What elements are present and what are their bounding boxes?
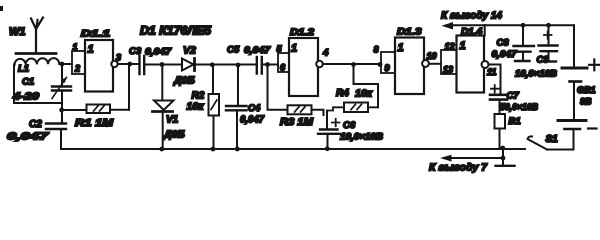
wire switch to battery: [547, 149, 574, 151]
node R1 tap: [59, 108, 64, 113]
node D1.3 in: [378, 62, 383, 67]
svg-text:К выводу 7: К выводу 7: [429, 162, 488, 174]
battery GB1: [562, 67, 587, 70]
battery plus: [589, 60, 600, 71]
svg-text:C1: C1: [22, 77, 34, 88]
wire input to D1.1: [62, 63, 72, 65]
svg-text:D1.3: D1.3: [397, 27, 422, 38]
C9 ground bar: [543, 60, 556, 62]
svg-text:10,0×10В: 10,0×10В: [340, 132, 384, 142]
C8 ground bar: [515, 60, 530, 62]
output bubble D1.2: [316, 61, 323, 68]
node C8: [521, 23, 526, 28]
wire tank bottom: [14, 102, 62, 104]
gate D1.3: [381, 52, 395, 73]
svg-text:V1: V1: [166, 115, 179, 126]
svg-text:0,047: 0,047: [244, 45, 271, 56]
wire D1.1 out: [118, 63, 138, 65]
svg-text:V2: V2: [183, 45, 196, 57]
antenna bar: [16, 52, 56, 55]
svg-text:D1 К176ЛЕ5: D1 К176ЛЕ5: [140, 26, 212, 38]
resistor R3: [288, 105, 312, 114]
arrow to pin 14: [442, 22, 454, 30]
svg-text:12: 12: [445, 42, 455, 52]
node V1 rail: [159, 147, 164, 152]
resistor R1: [62, 109, 87, 111]
svg-text:L1: L1: [18, 64, 29, 75]
node C4 rail: [235, 147, 240, 152]
wire D1.2 out: [323, 63, 381, 65]
svg-text:В1: В1: [509, 116, 521, 127]
node V1 branch: [160, 62, 165, 67]
svg-text:10,0×10В: 10,0×10В: [515, 69, 557, 80]
svg-text:Д9Б: Д9Б: [163, 129, 185, 141]
svg-text:10к: 10к: [187, 101, 205, 113]
resistor R4: [344, 103, 368, 113]
gate D1.4: [441, 50, 457, 74]
wire C2 to rail: [60, 129, 62, 149]
svg-text:3: 3: [116, 53, 121, 63]
capacitor C1: [52, 87, 71, 91]
svg-text:0,047: 0,047: [145, 47, 172, 58]
wire pin7 arrow line: [451, 157, 503, 159]
svg-text:R3 1М: R3 1М: [280, 116, 313, 128]
capacitor C8: [522, 25, 524, 46]
output bubble D1.1: [111, 61, 117, 67]
node R2 branch: [210, 62, 215, 67]
svg-text:К выводу 14: К выводу 14: [441, 10, 502, 22]
wire V1 branch: [161, 65, 163, 101]
wire tank right leg lower: [61, 91, 63, 124]
wire R4 zigzag: [354, 65, 379, 108]
switch S1: [528, 136, 548, 149]
battery minus: [588, 127, 597, 129]
diode V2: [182, 59, 194, 71]
svg-text:R1 1М: R1 1М: [75, 117, 113, 129]
output bubble D1.3: [422, 60, 429, 67]
wire R3 drop: [268, 65, 288, 110]
arrow to pin 7: [440, 155, 452, 162]
svg-text:0,047: 0,047: [492, 49, 518, 60]
svg-text:1: 1: [460, 40, 466, 52]
Vcc rail top: [451, 24, 574, 26]
capacitor C7: [490, 94, 507, 97]
speck top-left: [0, 6, 3, 11]
wire Vcc tap: [484, 25, 486, 36]
antenna W1: [31, 18, 43, 53]
capacitor C4: [237, 65, 239, 106]
svg-text:D1.1: D1.1: [81, 29, 110, 40]
svg-text:10: 10: [427, 51, 437, 61]
node pin7: [501, 156, 506, 161]
svg-text:C7: C7: [507, 91, 520, 102]
node feedback R1: [127, 62, 132, 67]
capacitor C6: [326, 111, 328, 130]
capacitor C3: [140, 56, 145, 74]
ground bar pin7: [496, 165, 515, 167]
gate D1.2: [278, 53, 289, 72]
svg-text:0,047: 0,047: [240, 115, 264, 126]
capacitor C9: [548, 25, 550, 45]
svg-text:GB1: GB1: [577, 85, 596, 95]
C7 plus: [491, 85, 499, 92]
node R3 branch: [265, 62, 270, 67]
node B1 rail: [500, 146, 505, 151]
ground rail bottom: [61, 148, 525, 150]
node coil-output junction: [60, 62, 65, 67]
svg-text:D1.4: D1.4: [461, 27, 483, 38]
svg-text:8: 8: [374, 45, 379, 55]
svg-text:4-20: 4-20: [12, 91, 39, 103]
diode V1: [154, 101, 174, 111]
svg-text:50,0×10В: 50,0×10В: [500, 102, 538, 113]
svg-text:C3: C3: [129, 46, 142, 57]
C9 plus: [544, 31, 552, 38]
svg-text:1: 1: [291, 43, 297, 55]
svg-text:W1: W1: [9, 26, 26, 38]
capacitor C2: [46, 124, 66, 130]
C6 plus: [332, 119, 340, 126]
wire V2 out: [195, 64, 258, 66]
node R4 tap: [351, 62, 356, 67]
node R2 rail: [211, 147, 216, 152]
wire C3 to V2: [144, 64, 182, 66]
gate D1.1: [72, 51, 85, 74]
svg-text:R4: R4: [336, 88, 349, 99]
inductor L1: [14, 58, 59, 65]
svg-text:13: 13: [443, 65, 453, 75]
resistor R2: [212, 65, 214, 94]
svg-text:C4: C4: [248, 103, 261, 114]
earphone B1: [495, 114, 506, 129]
wire tank right leg upper: [61, 64, 63, 86]
node C4 branch: [236, 63, 241, 68]
svg-text:0,047: 0,047: [7, 131, 50, 143]
wire D1.3 out: [429, 63, 441, 65]
wire D1.4 out to C7: [489, 65, 501, 94]
svg-text:2: 2: [74, 64, 80, 74]
svg-text:S1: S1: [546, 134, 559, 145]
svg-text:1: 1: [398, 42, 404, 54]
svg-text:Д9Б: Д9Б: [173, 75, 195, 87]
wire rail to battery: [573, 25, 575, 66]
svg-text:11: 11: [487, 67, 496, 77]
capacitor C5: [257, 57, 262, 74]
svg-text:C5: C5: [227, 45, 240, 56]
svg-text:C9: C9: [537, 55, 550, 66]
C1 variable arrow: [52, 78, 67, 99]
wire tank left leg: [13, 65, 15, 104]
svg-text:C2: C2: [29, 119, 42, 130]
node C6 rail: [325, 146, 330, 151]
svg-text:1: 1: [88, 44, 94, 56]
wire pin7 drop: [502, 148, 504, 165]
wire C5 to D1.2: [262, 64, 278, 66]
node C9: [546, 23, 551, 28]
svg-text:D1.2: D1.2: [290, 27, 315, 38]
svg-text:1: 1: [73, 42, 78, 52]
output bubble D1.4: [482, 61, 489, 68]
svg-text:C8: C8: [497, 38, 510, 49]
svg-text:9: 9: [385, 63, 390, 73]
svg-text:C6: C6: [343, 120, 356, 131]
svg-text:4: 4: [322, 48, 329, 59]
svg-text:10к: 10к: [355, 88, 373, 100]
svg-text:9В: 9В: [580, 97, 592, 107]
